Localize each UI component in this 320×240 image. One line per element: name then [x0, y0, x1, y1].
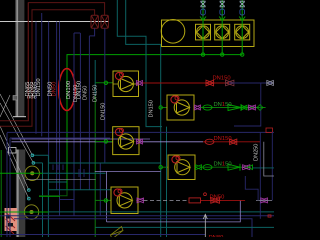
red tick bottom right	[268, 215, 271, 217]
valve V1 top	[91, 15, 98, 28]
LAYER: pumps	[96, 71, 275, 219]
row B pipe green	[201, 107, 266, 109]
row E right stub	[256, 199, 272, 201]
riser blue b3	[48, 22, 50, 163]
pipe dark green drop	[39, 190, 67, 196]
flex joint row B	[203, 105, 212, 110]
gray line y179.3	[26, 178, 96, 180]
svg-text:DN150: DN150	[36, 78, 42, 96]
leader line	[0, 135, 29, 199]
pump P5	[111, 187, 138, 214]
pipe blue h2	[10, 137, 110, 139]
valve row B magenta	[249, 105, 256, 110]
pipe blue y234.5	[0, 234, 205, 236]
teal stub dot1	[32, 154, 48, 156]
riser blue m1m2 jog	[74, 32, 80, 34]
svg-text:DN150: DN150	[214, 102, 232, 108]
pump P4	[168, 155, 195, 180]
diamond row B	[257, 105, 263, 111]
right header vertical	[259, 132, 261, 219]
leader line	[0, 103, 33, 163]
pump P1 suction	[96, 82, 114, 84]
valve row B green	[242, 105, 248, 110]
column bottom edge	[13, 116, 26, 118]
pipe dark red A	[0, 3, 105, 121]
valve row C	[230, 139, 237, 145]
tower fan circle	[161, 20, 185, 44]
inlet pipe 1	[200, 0, 206, 24]
valve magenta P2 out	[195, 105, 201, 110]
pump P3 suction	[96, 141, 113, 143]
LAYER: left vertical risers	[0, 0, 242, 237]
svg-text:DN80: DN80	[209, 235, 224, 237]
teal horizontal y212 long	[48, 211, 274, 213]
valve V2 top	[101, 15, 108, 28]
red riser right edge	[266, 128, 273, 133]
svg-text:DN150: DN150	[213, 76, 231, 82]
flex joint row C red	[205, 139, 214, 144]
branch jog row E inlet	[245, 176, 258, 200]
row C red segment	[203, 141, 260, 143]
teal horizontal y171.7	[95, 170, 161, 172]
pump P1	[113, 71, 139, 97]
cell square 3	[235, 24, 250, 40]
svg-text:DN150: DN150	[93, 85, 99, 102]
svg-text:DN50: DN50	[52, 82, 58, 97]
row A blue pipe	[229, 82, 274, 84]
valve green P4 out	[196, 165, 202, 170]
teal riser T1	[117, 0, 162, 127]
row D pipe green	[202, 166, 249, 168]
leader line	[0, 126, 29, 190]
teal vertical v2	[47, 155, 49, 237]
pipe blue y215.8	[0, 215, 274, 217]
pipe dark red B	[0, 10, 95, 127]
small red mark row E	[204, 193, 207, 196]
teal dot3	[28, 189, 31, 192]
pink wall section	[5, 208, 18, 231]
white survey line	[0, 21, 109, 23]
teal riser T2	[126, 0, 161, 237]
valve magenta P5 out	[137, 198, 144, 203]
pipe blue h1	[7, 131, 274, 133]
svg-text:DN150: DN150	[214, 136, 232, 142]
column stub	[13, 96, 18, 101]
inlet pipe 3	[239, 0, 245, 24]
riser DN65 red	[27, 3, 29, 121]
riser blue b2	[41, 13, 43, 136]
teal stub dot2	[33, 162, 42, 164]
LAYER: unit	[161, 0, 254, 56]
svg-text:DN150: DN150	[214, 162, 232, 168]
check valve row D	[228, 164, 240, 171]
riser blue b4	[56, 22, 58, 190]
valve row E right magenta	[261, 198, 268, 203]
node n3	[241, 53, 244, 56]
pump P2 suction	[161, 107, 167, 109]
sleeve dots	[27, 96, 36, 98]
riser green DN100	[67, 55, 242, 190]
branch drop right	[234, 83, 261, 126]
meter rect row E	[189, 198, 201, 203]
gauge circle C1	[25, 166, 39, 180]
pipe blue y218.8	[14, 219, 252, 237]
svg-text:DN150: DN150	[101, 103, 107, 120]
riser DN65 red2	[31, 10, 33, 126]
LAYER: texts	[25, 76, 259, 240]
column lower gray bar	[16, 150, 25, 238]
valve row A 1	[206, 80, 214, 86]
brace line	[0, 95, 10, 117]
lavender drop	[106, 171, 108, 222]
riser blue m1	[73, 33, 75, 216]
pipe green through C1	[0, 172, 43, 174]
inlet pipe 2	[219, 0, 225, 24]
teal horizontal y174	[43, 172, 106, 174]
arrow row D end	[248, 165, 253, 170]
right edge vertical	[271, 132, 273, 200]
pipe purple row C left	[12, 141, 204, 143]
teal riser T3	[166, 127, 168, 237]
LAYER: bottom network	[0, 132, 274, 239]
right L to edge	[264, 142, 274, 176]
pump P4 suction	[161, 166, 168, 168]
row E gray pipe	[144, 199, 190, 201]
valve magenta P1 out	[137, 81, 143, 86]
teal horizontal y162.4	[48, 162, 160, 164]
pipe green through C2	[0, 211, 48, 213]
row E red pipe	[201, 199, 246, 201]
cell square 1	[196, 24, 211, 40]
pump P5 suction	[96, 199, 112, 201]
damper symbol bottom	[111, 227, 124, 240]
gauge circle C2	[24, 205, 38, 219]
node n1	[201, 53, 204, 56]
pipe blue jog bottom	[60, 199, 74, 201]
teal horizontal y182.9	[48, 181, 67, 183]
riser teal suction header	[94, 60, 96, 96]
mid risers blue from valves	[89, 28, 94, 36]
outlet drops	[203, 40, 242, 55]
pipe green stub	[39, 196, 60, 198]
riser blue m3b	[99, 163, 101, 216]
cell square 2	[215, 24, 230, 40]
pipe blue y222.2	[107, 201, 241, 222]
svg-text:DN150: DN150	[148, 100, 154, 117]
riser green left edge	[0, 150, 2, 237]
valve magenta P3 out	[137, 139, 143, 144]
svg-text:DN150: DN150	[73, 85, 79, 102]
riser blue m2	[79, 33, 81, 190]
pump P3	[113, 127, 139, 155]
svg-text:DN250: DN250	[253, 144, 259, 161]
node n2	[221, 53, 224, 56]
riser blue b1	[35, 22, 37, 134]
teal horizontal y227.4	[96, 226, 275, 228]
cooling tower frame	[162, 20, 255, 47]
leader line	[0, 94, 32, 155]
column lower white box	[9, 148, 17, 154]
svg-text:DN50: DN50	[83, 86, 89, 100]
valve row A right	[267, 80, 274, 85]
teal dot4	[28, 197, 31, 200]
pump P2	[167, 95, 194, 120]
valve row D magenta	[243, 165, 250, 170]
row A red pipe	[143, 82, 230, 84]
teal vertical v1	[42, 163, 44, 237]
svg-text:DN50: DN50	[210, 194, 225, 200]
drop arrow DN80	[203, 214, 207, 237]
riser blue m4	[104, 28, 106, 162]
svg-text:DN100: DN100	[66, 81, 72, 99]
tick marks ladder	[53, 165, 84, 178]
riser blue m0	[59, 22, 61, 217]
valve row A 2	[226, 80, 234, 86]
flex joint row D	[203, 165, 212, 170]
red ellipse annotation	[59, 69, 75, 111]
riser blue left e2	[9, 138, 11, 237]
riser blue left e1	[6, 133, 8, 237]
teal horizontal y189.7	[48, 189, 111, 191]
valve row E	[211, 198, 220, 204]
column upper gray bar	[15, 0, 24, 117]
riser blue m3	[88, 36, 90, 190]
row D teal to edge	[253, 167, 275, 169]
check valve row B	[228, 104, 241, 111]
pipe purple h3	[12, 138, 151, 140]
